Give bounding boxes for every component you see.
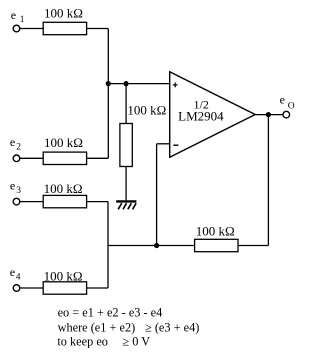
svg-text:100 kΩ: 100 kΩ	[127, 103, 166, 118]
svg-text:100 kΩ: 100 kΩ	[44, 268, 83, 283]
svg-text:2: 2	[16, 143, 21, 153]
svg-text:100 kΩ: 100 kΩ	[196, 224, 235, 239]
svg-text:≥ (e3 + e4): ≥ (e3 + e4)	[145, 320, 199, 334]
svg-text:1: 1	[20, 15, 25, 25]
svg-text:eo = e1 + e2 - e3 - e4: eo = e1 + e2 - e3 - e4	[58, 306, 163, 320]
svg-text:e: e	[10, 179, 15, 193]
svg-text:100 kΩ: 100 kΩ	[44, 6, 83, 21]
svg-text:to keep eo: to keep eo	[57, 334, 108, 348]
svg-text:e: e	[11, 8, 16, 22]
svg-text:≥ 0 V: ≥ 0 V	[122, 334, 150, 348]
svg-text:e: e	[10, 265, 15, 279]
svg-text:O: O	[288, 101, 295, 111]
svg-text:3: 3	[16, 186, 21, 196]
svg-text:where (e1 + e2): where (e1 + e2)	[58, 320, 136, 334]
svg-text:100 kΩ: 100 kΩ	[44, 135, 83, 150]
svg-text:4: 4	[16, 273, 21, 283]
svg-text:e: e	[280, 92, 285, 106]
svg-text:LM2904: LM2904	[178, 108, 224, 123]
svg-text:e: e	[10, 135, 15, 149]
svg-text:100 kΩ: 100 kΩ	[44, 181, 83, 196]
